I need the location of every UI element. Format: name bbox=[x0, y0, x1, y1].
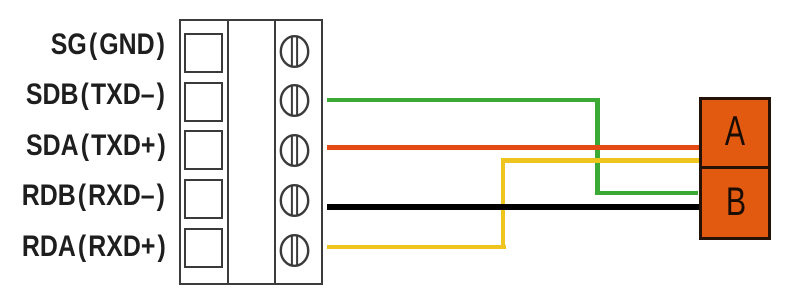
label SG(GND) bbox=[51, 30, 167, 60]
screw terminal 5 (RDA) bbox=[278, 233, 311, 268]
wire black RDB(RXD-) to terminal B bbox=[327, 204, 700, 210]
wire green SDB(TXD-) horizontal segment 1 bbox=[327, 98, 600, 103]
wire yellow vertical segment bbox=[501, 158, 506, 249]
RS-485 connector box bbox=[699, 97, 771, 240]
wire green horizontal segment 2 to terminal B bbox=[595, 191, 698, 196]
label RDA(RXD+) bbox=[22, 232, 168, 262]
RS-485 connector divider bbox=[702, 166, 768, 169]
label SDB(TXD-) bbox=[26, 80, 167, 110]
terminal pad 4 (RDB) bbox=[184, 179, 223, 219]
screw terminal 1 (SG) bbox=[278, 34, 311, 69]
terminal block J1 outline bbox=[179, 19, 324, 285]
label RDB(RXD-) bbox=[22, 181, 167, 211]
terminal pad 1 (SG) bbox=[184, 33, 223, 73]
terminal block divider line 1 bbox=[227, 19, 229, 285]
label SDA(TXD+) bbox=[26, 131, 168, 161]
terminal pad 3 (SDA) bbox=[184, 130, 223, 170]
screw terminal 2 (SDB) bbox=[278, 83, 311, 118]
screw terminal 4 (RDB) bbox=[278, 183, 311, 218]
wire red SDA(TXD+) to terminal A bbox=[327, 145, 700, 150]
terminal A label bbox=[709, 110, 761, 152]
screw terminal 3 (SDA) bbox=[278, 133, 311, 168]
terminal block divider line 2 bbox=[274, 19, 276, 285]
wire green vertical segment bbox=[595, 98, 600, 196]
terminal pad 2 (SDB) bbox=[184, 82, 223, 122]
wire yellow horizontal segment 2 to terminal A bbox=[501, 158, 700, 163]
terminal B label bbox=[709, 182, 764, 222]
wire yellow RDA(RXD+) horizontal segment 1 bbox=[327, 245, 506, 249]
terminal pad 5 (RDA) bbox=[184, 228, 223, 268]
